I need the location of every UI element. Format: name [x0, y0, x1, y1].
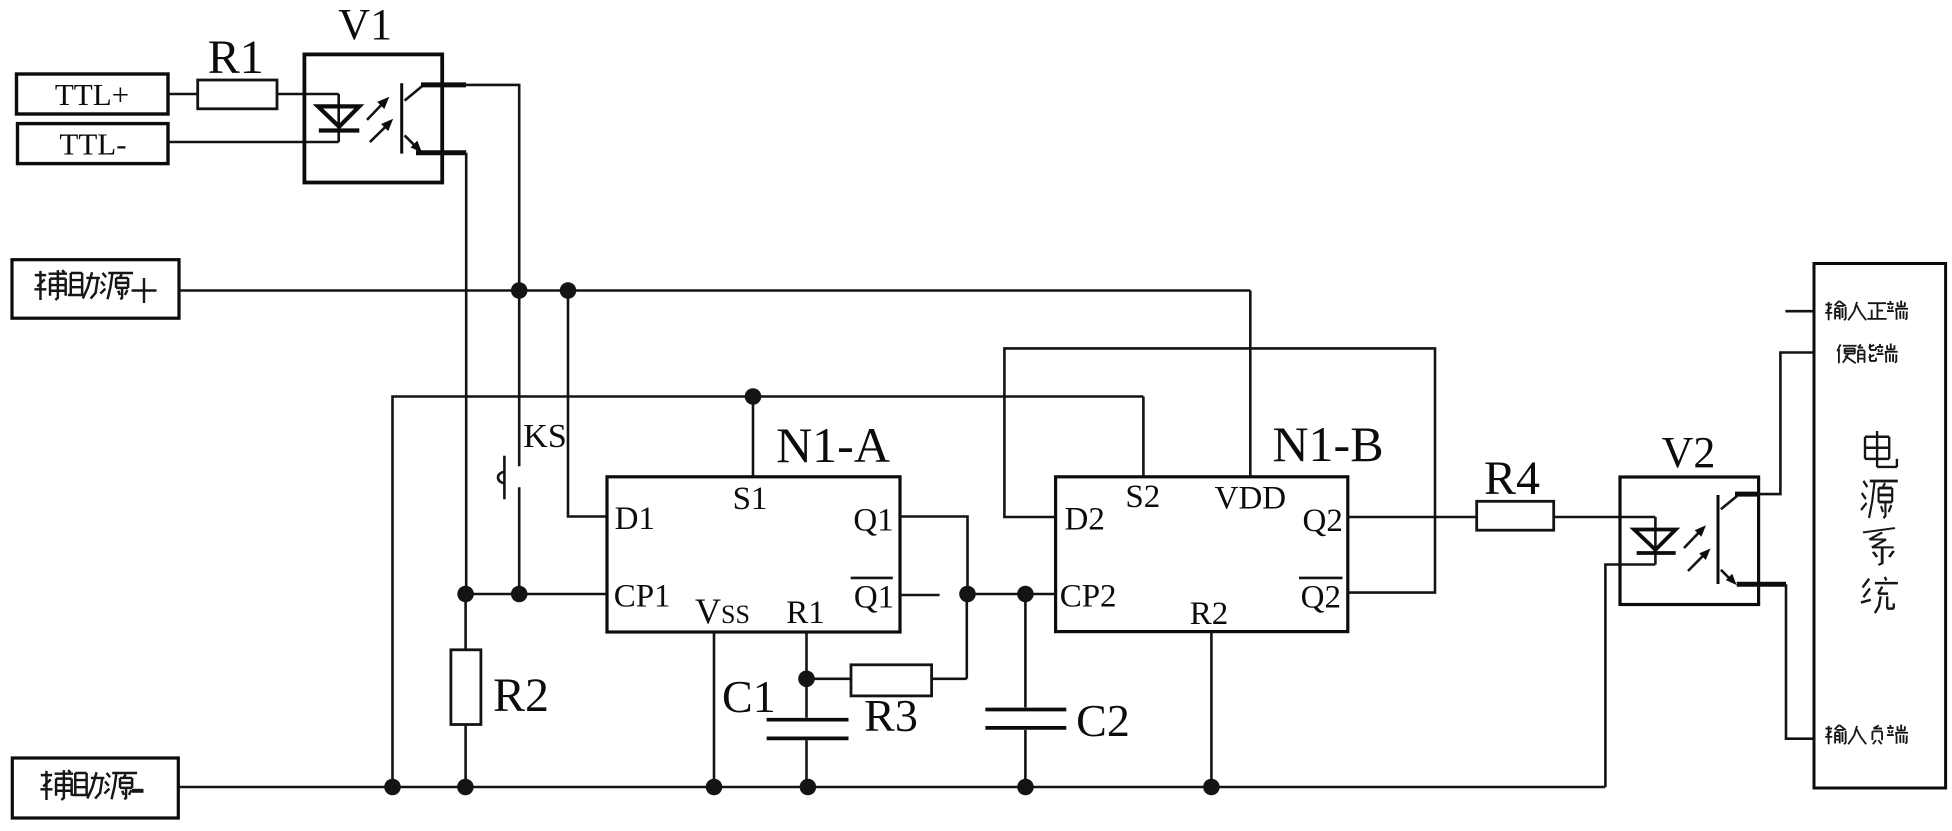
wire S2 drop	[1142, 397, 1145, 477]
node aux-/Vss junction	[706, 779, 723, 796]
svg-text:C1: C1	[722, 671, 776, 722]
svg-text:C2: C2	[1076, 695, 1130, 746]
svg-text:S1: S1	[733, 481, 768, 517]
wire V2 emitter to input-negative pin	[1786, 584, 1814, 739]
wire R1 pin down	[805, 632, 808, 679]
node R1/R3/C1 junction	[798, 671, 815, 688]
wire Vss to aux- rail	[713, 632, 716, 787]
wire CP2 line	[968, 593, 1056, 596]
V1 phototransistor	[402, 83, 467, 153]
terminal box TTL-	[18, 124, 169, 164]
wire input-positive stub	[1785, 310, 1814, 313]
node aux-/C1 junction	[800, 779, 817, 796]
node aux-/R2 junction	[457, 779, 474, 796]
svg-text:CP2: CP2	[1060, 579, 1117, 615]
wire V2 collector to enable pin	[1759, 353, 1814, 495]
resistor R2	[451, 594, 549, 787]
V1 LED diode	[318, 94, 359, 142]
svg-text:R4: R4	[1484, 452, 1540, 505]
flip-flop N1-A	[607, 417, 900, 632]
svg-text:TTL-: TTL-	[59, 127, 126, 162]
svg-text:N1-B: N1-B	[1272, 416, 1383, 472]
wire R1 to V1 LED anode	[277, 93, 339, 96]
block 电源系统 power system box	[1814, 264, 1946, 789]
svg-text:CP1: CP1	[614, 579, 671, 615]
node S1 junction	[745, 388, 762, 405]
wire V1 emitter down to CP1 node	[465, 153, 468, 594]
capacitor C2	[985, 594, 1129, 787]
wire R4 to V2 LED	[1554, 516, 1656, 519]
V2 phototransistor	[1718, 494, 1786, 585]
node aux-/C2 junction	[1017, 779, 1034, 796]
wire N1-B R2 pin to aux- rail	[1210, 632, 1213, 787]
wire CP1 line	[466, 593, 607, 596]
svg-text:TTL+: TTL+	[55, 77, 129, 112]
flip-flop N1-B	[1056, 416, 1384, 632]
wire aux+ rail	[179, 289, 1250, 292]
wire V1 collector to aux+ rail	[466, 85, 519, 291]
svg-text:VDD: VDD	[1215, 481, 1287, 517]
resistor R1	[198, 31, 277, 109]
svg-text:V2: V2	[1662, 428, 1716, 477]
svg-text:Q1: Q1	[853, 503, 893, 539]
svg-text:S2: S2	[1125, 479, 1160, 515]
svg-text:Q2: Q2	[1301, 580, 1341, 616]
capacitor C1	[722, 671, 848, 787]
wire D1 from aux+	[568, 291, 607, 517]
svg-text:D2: D2	[1065, 502, 1105, 538]
svg-text:R2: R2	[1190, 596, 1229, 632]
node KS/CP1 junction	[511, 586, 528, 603]
svg-text:V1: V1	[338, 0, 392, 49]
V2 LED diode	[1634, 517, 1676, 565]
wire TTL+ to R1	[168, 93, 198, 96]
svg-text:D1: D1	[615, 501, 655, 537]
node Q1/R3/CP2 junction	[959, 586, 976, 603]
wire V2 LED cathode to aux- rail	[1605, 565, 1655, 788]
op-to-coupler V1 box	[304, 0, 442, 183]
svg-text:KS: KS	[523, 418, 566, 455]
svg-text:R1: R1	[208, 31, 264, 84]
wire VDD drop	[1249, 291, 1252, 477]
wire Q2-bar feedback to D2	[1004, 348, 1435, 592]
svg-text:Q1: Q1	[854, 580, 894, 616]
svg-text:Q2: Q2	[1303, 503, 1343, 539]
node aux-/R2pin junction	[1203, 779, 1220, 796]
V2 light arrows	[1684, 525, 1711, 571]
svg-text:N1-A: N1-A	[776, 417, 890, 473]
resistor R3	[807, 594, 967, 741]
terminal box 辅助源-	[12, 758, 178, 818]
wire Q1-bar stub	[900, 594, 940, 597]
node C2/CP2 junction	[1017, 586, 1034, 603]
wire Q1 output	[900, 517, 968, 595]
wire Q2 to R4	[1348, 516, 1477, 519]
node emitter/R2/CP1 junction	[457, 586, 474, 603]
terminal box 辅助源+	[12, 260, 179, 319]
wire aux- rail	[178, 786, 1606, 789]
svg-text:R2: R2	[493, 669, 549, 722]
node aux+/KS junction	[511, 282, 528, 299]
optocoupler V2 box	[1620, 428, 1759, 605]
svg-text:R1: R1	[786, 595, 825, 631]
wire TTL- to V1 LED cathode	[168, 141, 339, 144]
resistor R4	[1477, 452, 1554, 530]
node aux+/D1 junction	[560, 282, 577, 299]
node aux-/setline junction	[384, 779, 401, 796]
svg-text:R3: R3	[864, 690, 918, 741]
wire S1 drop	[752, 397, 755, 477]
terminal box TTL+	[17, 74, 169, 114]
wire set line S1/S2 to aux-	[393, 397, 1144, 788]
V1 light arrows	[367, 97, 393, 142]
switch KS	[498, 291, 567, 595]
